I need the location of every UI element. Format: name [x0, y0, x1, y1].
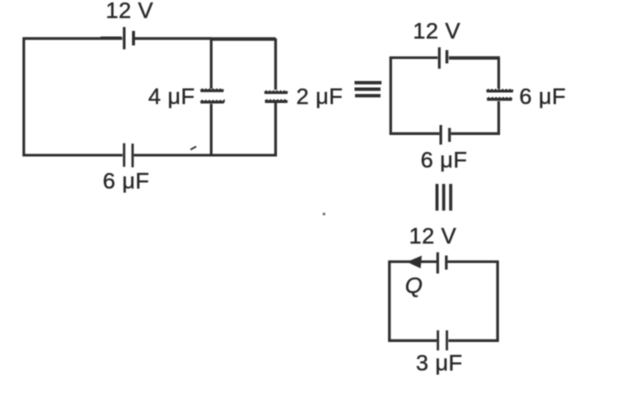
wire: bottom circuit right edge [496, 262, 499, 341]
wire: middle branch lower [210, 104, 213, 155]
label: 2 uF [296, 84, 343, 109]
wire: left circuit right edge upper [274, 39, 277, 90]
wire: bottom circuit left edge [388, 262, 391, 341]
capacitor C1 4 uF top plate [201, 89, 224, 90]
battery V2 12 V short plate [445, 50, 448, 63]
wire: left circuit left edge [22, 39, 25, 156]
wire: middle circuit bottom-left segment [389, 132, 439, 135]
label: 4 uF [148, 84, 195, 109]
wire artifact: doubled stroke on top-left wire [101, 36, 122, 38]
wire: bottom circuit top-left segment [388, 260, 436, 263]
svg-text:6 μF: 6 μF [103, 169, 150, 194]
equivalence symbol (three vertical bars) [435, 184, 438, 211]
capacitor C5 6 uF long plate [439, 125, 442, 145]
capacitor C4 6 uF bottom plate [487, 98, 512, 99]
svg-text:Q: Q [405, 273, 423, 298]
label: 3 uF [416, 350, 463, 375]
wire: left circuit bottom-left segment [23, 154, 123, 157]
label: 6 uF (left circuit) [103, 169, 150, 194]
label: 6 uF (middle circuit bottom) [421, 147, 468, 172]
wire: middle circuit right edge lower [497, 101, 500, 135]
svg-text:12 V: 12 V [409, 224, 457, 249]
wire: bottom circuit bottom-left segment [388, 339, 437, 342]
label: 12 V (bottom circuit) [409, 224, 457, 249]
stray mark near bottom wire [191, 147, 197, 150]
wire: left circuit top-middle segment [135, 37, 212, 40]
svg-text:3 μF: 3 μF [416, 350, 463, 375]
equivalence symbol (three horizontal bars) [355, 81, 382, 84]
wire: bottom circuit top-right segment [448, 260, 499, 263]
capacitor C6 3 uF right plate [446, 330, 448, 350]
wire: left circuit right edge lower [274, 103, 277, 157]
capacitor C3 6 uF left plate [123, 143, 125, 167]
label: 6 uF (middle circuit right) [519, 84, 566, 109]
label: 12 V (middle circuit) [413, 19, 461, 44]
wire: left circuit top-left segment [23, 37, 123, 40]
wire: left circuit bottom-right segment [134, 154, 277, 157]
capacitor C4 6 uF top plate [487, 90, 514, 91]
arrow Q (charge direction) [408, 256, 421, 267]
wire: middle circuit left edge [389, 58, 392, 134]
wire: middle circuit top-right segment [449, 56, 500, 59]
battery V2 12 V long plate [438, 47, 441, 68]
capacitor C3 6 uF right plate [131, 144, 133, 168]
wire: middle circuit top-left segment [389, 56, 437, 59]
wire: middle circuit right edge upper [497, 58, 500, 89]
svg-text:12 V: 12 V [413, 19, 461, 44]
capacitor C2 2 uF top plate [265, 91, 288, 92]
svg-text:6 μF: 6 μF [421, 147, 468, 172]
battery V3 12 V long plate [436, 252, 439, 273]
battery V3 12 V short plate [445, 256, 448, 270]
battery V1 12 V long plate [123, 27, 126, 49]
svg-text:2 μF: 2 μF [296, 84, 343, 109]
capacitor C2 2 uF bottom plate [265, 100, 287, 101]
capacitor C6 3 uF left plate [437, 330, 439, 350]
capacitor C5 6 uF short plate [448, 128, 451, 142]
wire: middle circuit bottom-right segment [451, 132, 500, 135]
wire: middle branch upper [210, 39, 213, 89]
label: 12 V (left circuit) [106, 0, 154, 23]
wire: bottom circuit bottom-right segment [448, 339, 499, 342]
svg-text:6 μF: 6 μF [519, 84, 566, 109]
svg-text:12 V: 12 V [106, 0, 154, 23]
wire: left circuit top-right segment [211, 37, 276, 41]
stray dot [323, 213, 326, 216]
battery V1 12 V short plate [132, 31, 135, 46]
svg-text:4 μF: 4 μF [148, 84, 195, 109]
label: Q [405, 273, 423, 298]
capacitor C1 4 uF bottom plate [201, 101, 225, 102]
